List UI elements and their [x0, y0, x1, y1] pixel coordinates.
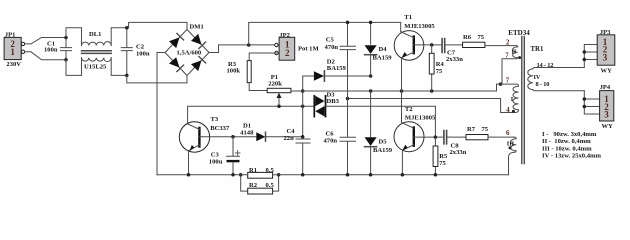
svg-text:I - 90zw. 3x0,4mm: I - 90zw. 3x0,4mm: [542, 131, 597, 138]
svg-text:WY: WY: [602, 123, 614, 130]
svg-text:BA159: BA159: [327, 65, 347, 72]
wire JP1 pin2 to C1 top: [25, 38, 67, 44]
phase dot winding II: [518, 56, 521, 59]
svg-text:8 - 10: 8 - 10: [536, 81, 550, 88]
resistor R6: [463, 42, 485, 47]
diode top-left of DM1: [169, 37, 180, 48]
svg-text:4148: 4148: [240, 129, 254, 136]
svg-text:U15L25: U15L25: [84, 64, 107, 71]
node dot wiper on line C: [277, 105, 281, 109]
svg-text:75: 75: [478, 34, 485, 41]
node dot line A T1 emitter: [400, 89, 404, 93]
wire JP2 pin2 to R3: [249, 53, 276, 61]
winding III: [509, 137, 517, 175]
wire R6 to winding II pin2: [485, 44, 514, 47]
svg-text:22n: 22n: [284, 135, 295, 142]
wire bridge minus to bottom rail: [157, 53, 165, 175]
svg-text:R1: R1: [249, 167, 257, 174]
svg-text:0.5: 0.5: [266, 182, 275, 189]
svg-text:75: 75: [436, 68, 443, 75]
capacitor C1: [61, 38, 72, 60]
node dot rail C4: [301, 173, 305, 177]
wire DL1 bottom right to C2: [111, 58, 127, 76]
svg-text:II: II: [512, 48, 517, 55]
svg-text:DL1: DL1: [89, 31, 101, 38]
svg-text:MJE13005: MJE13005: [404, 23, 435, 30]
svg-text:14 - 12: 14 - 12: [537, 62, 554, 69]
phase dot winding I: [512, 110, 515, 113]
diode D1: [256, 132, 302, 141]
wire JP4 bus: [584, 91, 599, 114]
capacitor C5: [340, 22, 356, 98]
connector JP3: [597, 35, 615, 65]
svg-text:DB3: DB3: [327, 98, 340, 105]
capacitor C4: [296, 106, 310, 175]
svg-text:2: 2: [506, 39, 510, 46]
wire JP3 bus: [584, 45, 597, 68]
node dot C5 top: [346, 21, 350, 25]
svg-text:100k: 100k: [227, 68, 241, 75]
wire DC plus riser and top rail: [249, 22, 401, 45]
svg-text:1,5A/600: 1,5A/600: [177, 49, 202, 56]
resistor R2 parallel: [241, 175, 279, 194]
svg-text:BC337: BC337: [210, 125, 230, 132]
svg-text:2x33n: 2x33n: [446, 56, 463, 63]
svg-text:III: III: [507, 141, 515, 148]
node dot rail R5: [434, 173, 438, 177]
node dot DC plus riser: [247, 43, 251, 47]
wire AC bottom rail: [66, 58, 82, 76]
wire T1 base line: [414, 44, 441, 46]
node dot C1 bottom: [64, 58, 68, 62]
svg-text:ETD34: ETD34: [508, 29, 530, 37]
svg-text:100n: 100n: [44, 47, 58, 54]
svg-text:D4: D4: [379, 46, 388, 53]
node dot C1 top: [64, 36, 68, 40]
node dot R2 right: [277, 173, 281, 177]
svg-text:T3: T3: [211, 116, 219, 123]
diode D4: [365, 22, 377, 76]
svg-text:R7: R7: [467, 126, 476, 133]
winding I primary: [501, 84, 519, 112]
node dot D2 cathode: [369, 74, 373, 78]
svg-text:MJE13005: MJE13005: [405, 114, 436, 121]
svg-text:JP3: JP3: [600, 29, 611, 36]
node dot C2 bottom: [125, 74, 129, 78]
svg-text:C6: C6: [326, 130, 335, 137]
svg-text:3: 3: [603, 53, 608, 63]
svg-text:6: 6: [506, 130, 510, 137]
node dot rail C3: [231, 173, 235, 177]
svg-text:0.5: 0.5: [266, 167, 275, 174]
svg-text:DM1: DM1: [190, 24, 204, 31]
svg-text:230V: 230V: [6, 61, 21, 68]
capacitor C2: [121, 28, 132, 76]
svg-text:470n: 470n: [324, 137, 338, 144]
svg-text:2x33n: 2x33n: [450, 149, 467, 156]
resistor R5: [433, 137, 438, 175]
wire T2 base line: [414, 136, 444, 138]
wire bridge plus to JP2: [209, 45, 276, 53]
resistor R4: [429, 45, 434, 91]
node dot JP4 pin2: [583, 105, 587, 109]
capacitor C6: [340, 99, 356, 175]
diac D3: [314, 96, 435, 137]
svg-text:JP4: JP4: [600, 84, 611, 91]
wire T3 base line: [199, 136, 256, 138]
diode top-right of DM1: [191, 34, 202, 45]
diode D2: [314, 71, 371, 81]
resistor R1 in bottom rail: [248, 172, 273, 178]
svg-text:JP1: JP1: [5, 31, 16, 38]
capacitor C8: [444, 131, 466, 144]
node dot line A R4: [430, 89, 434, 93]
node dot rail D5: [369, 173, 373, 177]
svg-text:C3: C3: [211, 151, 220, 158]
svg-text:7: 7: [506, 78, 510, 85]
svg-text:100n: 100n: [136, 51, 150, 58]
svg-text:T1: T1: [404, 14, 412, 21]
node dot JP3 pin3: [583, 58, 587, 62]
common-mode choke DL1: [82, 42, 112, 62]
diode bottom-left of DM1: [169, 57, 180, 67]
svg-text:R6: R6: [463, 34, 472, 41]
resistor R7: [466, 135, 488, 140]
node dot R2 left: [239, 173, 243, 177]
node dot T1 base: [430, 43, 434, 47]
wire DL1 top right to C2: [111, 28, 128, 46]
svg-text:TR1: TR1: [531, 46, 544, 53]
svg-text:100u: 100u: [209, 159, 223, 166]
node dot rail T3 emitter: [187, 173, 191, 177]
capacitor C7: [442, 39, 463, 53]
node dot line A x302: [301, 89, 305, 93]
wire line C collector-diac rail: [188, 106, 315, 124]
transistor T3: [179, 122, 209, 175]
svg-text:C2: C2: [136, 43, 145, 50]
capacitor C3 electrolytic: [227, 137, 241, 175]
svg-text:D5: D5: [379, 138, 388, 145]
svg-text:7: 7: [505, 52, 509, 59]
wire AC top rail: [66, 28, 82, 46]
node dot line A D4D5: [369, 89, 373, 93]
wire bottom rail: [157, 174, 509, 176]
connector JP1: [4, 37, 25, 59]
svg-text:C5: C5: [326, 36, 335, 43]
node dot JP4 pin1: [583, 97, 587, 101]
node dot C2 top: [125, 26, 129, 30]
diode D5: [365, 91, 377, 175]
wire AC2 to bridge bottom corner: [127, 75, 187, 83]
transistor T1: [394, 22, 424, 91]
connector JP4: [600, 91, 614, 121]
wire R7 to winding III pin6: [488, 136, 514, 138]
svg-text:JP2: JP2: [279, 32, 290, 39]
svg-text:WY: WY: [601, 68, 613, 75]
svg-text:IV: IV: [534, 74, 541, 81]
node dot line C x302.7: [301, 105, 305, 109]
svg-text:IV - 13zw. 25x0,4mm: IV - 13zw. 25x0,4mm: [542, 153, 602, 160]
node dot D4 top: [369, 21, 373, 25]
node dot rail C6: [346, 173, 350, 177]
winding IV secondary: [528, 68, 585, 91]
svg-text:BA159: BA159: [373, 54, 393, 61]
wire AC1 to bridge top corner: [129, 22, 187, 29]
svg-text:T2: T2: [405, 106, 413, 113]
svg-text:III - 10zw. 0,4mm: III - 10zw. 0,4mm: [542, 145, 592, 152]
svg-text:2: 2: [285, 48, 290, 58]
svg-text:1: 1: [10, 47, 15, 57]
winding II: [502, 46, 518, 85]
wire line B cap midpoint: [348, 99, 512, 113]
wire R3 to P1: [249, 83, 267, 91]
svg-text:II - 10zw. 0,4mm: II - 10zw. 0,4mm: [542, 138, 591, 145]
node dot pin7 junction: [499, 82, 503, 86]
node dot C3 top: [231, 135, 235, 139]
svg-text:3: 3: [604, 109, 609, 119]
svg-text:Pot 1M: Pot 1M: [298, 45, 319, 52]
wire JP1 pin1 to C1 bottom: [25, 52, 67, 60]
node dot T2 base: [434, 135, 438, 139]
svg-text:BA159: BA159: [373, 147, 393, 154]
connector JP2: [275, 37, 295, 60]
node dot C4 top base line: [301, 135, 305, 139]
transistor T2: [394, 91, 424, 175]
resistor R3: [247, 61, 251, 83]
svg-text:75: 75: [439, 160, 446, 167]
wire vertical x302 D2 to C4: [303, 76, 314, 106]
svg-text:470n: 470n: [325, 44, 339, 51]
svg-text:R2: R2: [249, 182, 258, 189]
node dot JP3 pin2: [583, 50, 587, 54]
winding notes text: [542, 131, 602, 160]
transformer TR1 core: [522, 37, 525, 164]
node dot rail T2 emitter: [401, 173, 405, 177]
diode bottom-right of DM1: [191, 60, 202, 71]
wire line A midpoint: [291, 84, 501, 91]
svg-text:75: 75: [482, 126, 489, 133]
potentiometer P1: [267, 88, 291, 106]
node dot line B C5C6: [346, 97, 350, 101]
phase dot winding III: [509, 146, 512, 149]
bridge rectifier DM1: [165, 30, 209, 76]
svg-text:220k: 220k: [268, 81, 282, 88]
svg-text:4: 4: [506, 107, 510, 114]
